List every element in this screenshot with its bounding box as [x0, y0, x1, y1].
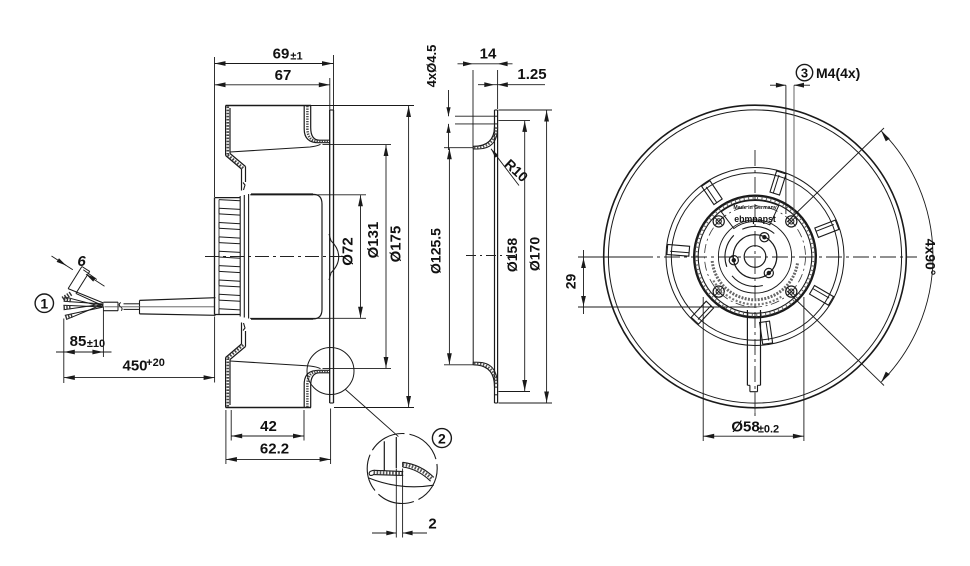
dimension M4 hole [770, 83, 810, 217]
dimension Ø175 [311, 106, 414, 408]
svg-text:2: 2 [428, 516, 436, 533]
dimension 450+20 [64, 317, 215, 383]
dimension 62.2 [226, 409, 331, 465]
dimension 4xØ4.5 [424, 45, 494, 150]
dimension 4x90° [787, 128, 939, 386]
motor flange [240, 194, 248, 319]
svg-text:Ø58: Ø58 [731, 419, 759, 436]
impeller inlet ring bottom [304, 370, 330, 407]
svg-text:±1: ±1 [290, 51, 302, 63]
impeller inlet ring top [304, 106, 330, 143]
svg-text:Ø175: Ø175 [388, 226, 405, 263]
wire leads (3 straight) [63, 297, 103, 320]
svg-text:Ø125.5: Ø125.5 [428, 228, 444, 274]
dimension 2 (detail gap) [372, 469, 437, 538]
svg-text:Ø170: Ø170 [527, 237, 543, 271]
label M4(4x) [816, 65, 860, 81]
bolt circle Ø58 [705, 206, 806, 307]
svg-text:450: 450 [122, 358, 147, 375]
svg-text:14: 14 [480, 46, 497, 63]
made in germany text [733, 205, 776, 211]
impeller back disc bottom rim [226, 323, 311, 408]
svg-text:±10: ±10 [87, 338, 105, 350]
support plate circles [666, 168, 844, 346]
shaft bulge (section) [329, 234, 339, 280]
front view centerline vertical [754, 150, 756, 417]
dimension 67 [215, 67, 330, 110]
balloon 3 [796, 64, 812, 80]
motor heatsink fins [215, 198, 241, 315]
svg-text:4xØ4.5: 4xØ4.5 [424, 45, 439, 88]
blade slots (7x) [667, 171, 839, 344]
impeller outer circle [604, 105, 907, 408]
impeller back disc top rim [226, 106, 311, 191]
dimension Ø125.5 [428, 148, 474, 365]
cable (front view) [747, 310, 760, 416]
detail circle [367, 434, 437, 504]
svg-text:Made in Germany: Made in Germany [733, 205, 776, 211]
dimension Ø72 [250, 195, 366, 318]
wire lead bent up [63, 267, 104, 307]
hub screws (3x) [729, 233, 773, 278]
hub boss arcs [725, 226, 774, 286]
svg-text:+20: +20 [146, 357, 165, 369]
dimension 42 [231, 410, 304, 441]
dimension 85±10 [56, 307, 112, 384]
wall ring centerline [466, 255, 515, 257]
ebmpapst logo [734, 214, 776, 224]
part number arc text (simulated) [712, 261, 797, 304]
detail view contents [369, 437, 434, 487]
shaft circles [718, 220, 791, 293]
svg-text:29: 29 [563, 274, 579, 290]
wire cable to motor [104, 298, 216, 316]
svg-text:Ø131: Ø131 [365, 222, 382, 259]
M4 screws (4x) [713, 216, 797, 297]
section view centerline [205, 256, 347, 258]
detail leader line [346, 390, 399, 437]
wall ring (side view) [473, 110, 497, 403]
svg-text:42: 42 [260, 418, 277, 435]
motor body (section) [251, 194, 322, 319]
svg-text:M4(4x): M4(4x) [816, 65, 860, 81]
dimension Ø131 [323, 145, 392, 369]
dimension 6 on stripped lead [52, 253, 105, 286]
dimension 69±1 [215, 46, 334, 198]
svg-text:4x90°: 4x90° [923, 239, 939, 276]
rotor circle [694, 196, 816, 318]
dimension Ø158 [499, 120, 531, 391]
wall ring outer circle [608, 110, 901, 403]
svg-text:1: 1 [40, 295, 48, 311]
svg-text:6: 6 [77, 253, 86, 270]
hub label panel [721, 200, 778, 228]
dimension 29 [563, 250, 758, 314]
svg-text:69: 69 [273, 46, 290, 63]
svg-text:Ø158: Ø158 [504, 238, 520, 272]
blade edge line bottom [230, 361, 321, 369]
svg-text:1.25: 1.25 [517, 66, 546, 83]
label R10 [491, 149, 531, 186]
svg-text:Ø72: Ø72 [340, 237, 357, 265]
dimension 14 [458, 46, 513, 148]
svg-text:2: 2 [438, 430, 446, 446]
svg-text:3: 3 [801, 65, 808, 80]
wall ring plate (section) [330, 110, 334, 403]
blade edge line top [230, 144, 321, 152]
svg-text:85: 85 [70, 333, 87, 350]
svg-text:±0.2: ±0.2 [758, 424, 779, 436]
dimension Ø58±0.2 [703, 297, 804, 441]
balloon 2 [432, 429, 451, 448]
svg-text:67: 67 [275, 67, 292, 84]
dimension Ø170 [499, 110, 553, 403]
dimension 1.25 [478, 66, 547, 87]
balloon 1 [35, 294, 53, 312]
svg-text:62.2: 62.2 [260, 441, 289, 458]
detail marker circle [307, 348, 354, 395]
front view centerline horizontal [583, 256, 917, 258]
